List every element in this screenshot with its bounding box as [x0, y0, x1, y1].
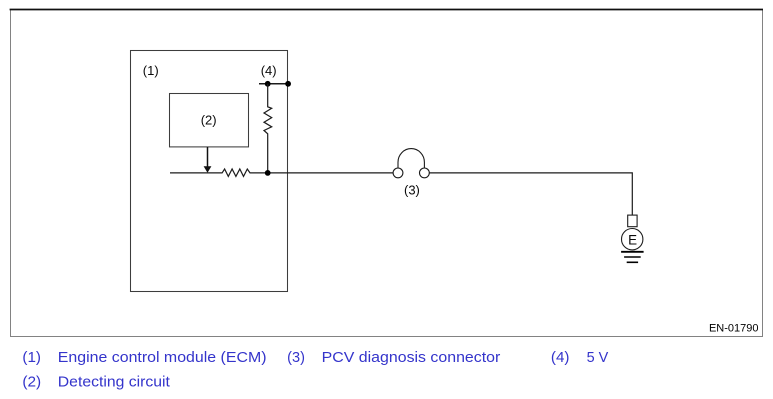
arrow from detecting circuit to sense line [204, 147, 212, 173]
svg-text:(1): (1) [143, 63, 159, 78]
svg-text:PCV diagnosis connector: PCV diagnosis connector [322, 350, 501, 366]
svg-text:(1): (1) [22, 350, 41, 366]
svg-text:(3): (3) [404, 182, 420, 197]
svg-text:(2): (2) [22, 375, 41, 391]
node: junction dot at resistor top [265, 81, 271, 87]
connector (3) jumper arc [398, 149, 424, 168]
wire: from connector to ground terminal [429, 173, 632, 215]
ground symbol bar 1 [621, 251, 644, 253]
svg-text:EN-01790: EN-01790 [709, 322, 759, 334]
svg-text:(4): (4) [261, 63, 277, 78]
svg-text:(2): (2) [201, 113, 217, 128]
resistor R1 (pull-up, vertical) [264, 84, 272, 173]
node: junction dot on ECM box edge [285, 81, 291, 87]
svg-text:Detecting circuit: Detecting circuit [58, 375, 170, 391]
svg-text:(3): (3) [287, 350, 305, 366]
ground point E circle [622, 229, 643, 250]
svg-text:(4): (4) [551, 350, 570, 366]
ground symbol bar 3 [627, 261, 638, 263]
detecting circuit box (2) [170, 94, 249, 147]
svg-text:Engine control module (ECM): Engine control module (ECM) [58, 350, 267, 366]
ECM box U1 (engine control module) [131, 51, 288, 292]
svg-text:5 V: 5 V [587, 350, 609, 366]
node: junction dot at resistor bottom [265, 170, 271, 176]
frame (decorative) [11, 10, 763, 337]
connector terminal square [628, 215, 637, 227]
ground symbol bar 2 [624, 256, 641, 258]
connector (3) right terminal [420, 168, 430, 178]
svg-text:E: E [628, 232, 637, 247]
wire: sense line with resistor R2 (series, horizontal) [170, 169, 393, 176]
connector (3) left terminal [393, 168, 403, 178]
wire: 5V supply stub [259, 83, 289, 85]
